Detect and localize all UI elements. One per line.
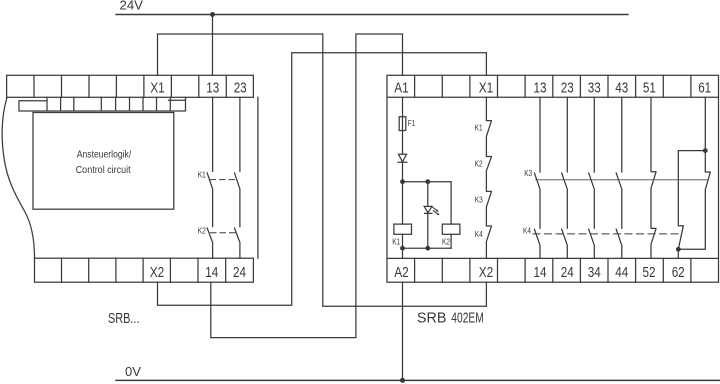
svg-text:51: 51 (643, 79, 656, 96)
svg-text:24V: 24V (120, 0, 144, 13)
svg-text:24: 24 (233, 264, 246, 281)
svg-text:34: 34 (588, 264, 601, 281)
svg-text:44: 44 (615, 264, 628, 281)
svg-text:13: 13 (206, 79, 219, 96)
svg-text:0V: 0V (125, 365, 142, 379)
svg-text:K2: K2 (475, 159, 483, 168)
svg-text:SRB: SRB (417, 309, 447, 326)
svg-text:62: 62 (672, 264, 685, 281)
svg-text:K3: K3 (524, 169, 532, 178)
svg-text:K2: K2 (442, 237, 450, 246)
svg-text:F1: F1 (408, 119, 416, 128)
svg-text:A2: A2 (394, 264, 409, 281)
svg-text:X1: X1 (479, 79, 494, 96)
svg-text:23: 23 (234, 79, 247, 96)
svg-text:X2: X2 (479, 264, 494, 281)
svg-text:24: 24 (561, 264, 574, 281)
svg-text:K2: K2 (198, 227, 206, 236)
svg-text:Ansteuerlogik/: Ansteuerlogik/ (77, 149, 132, 160)
svg-text:52: 52 (643, 264, 656, 281)
svg-text:K1: K1 (475, 123, 483, 132)
svg-text:K3: K3 (475, 195, 483, 204)
svg-text:14: 14 (205, 264, 218, 281)
svg-text:X1: X1 (150, 79, 165, 96)
svg-text:K4: K4 (475, 230, 483, 239)
svg-text:K4: K4 (523, 227, 531, 236)
svg-text:K1: K1 (198, 170, 206, 179)
svg-text:43: 43 (615, 79, 628, 96)
svg-text:K1: K1 (392, 237, 400, 246)
svg-text:402EM: 402EM (451, 309, 484, 326)
svg-text:13: 13 (534, 79, 547, 96)
svg-text:Control circuit: Control circuit (76, 165, 131, 176)
svg-text:X2: X2 (150, 264, 165, 281)
svg-text:14: 14 (534, 264, 547, 281)
svg-text:SRB...: SRB... (108, 310, 140, 327)
svg-text:33: 33 (588, 79, 601, 96)
svg-text:A1: A1 (394, 79, 409, 96)
svg-text:61: 61 (698, 79, 711, 96)
svg-text:23: 23 (561, 79, 574, 96)
